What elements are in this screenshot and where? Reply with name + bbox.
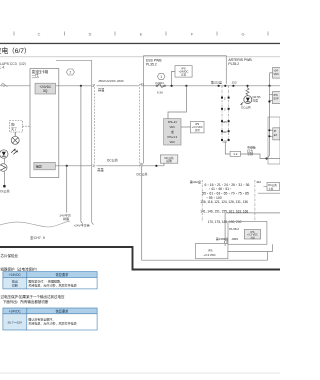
svg-text:DC公共: DC公共 [164,156,174,160]
block DC公共 接地 [160,155,177,163]
svg-text:正常: 正常 [195,128,201,132]
stub to block R1 [270,72,273,74]
monitor block IPS +3.3 VDC [244,230,260,240]
svg-text:J504=24VDC 2000: J504=24VDC 2000 [98,79,124,83]
harness box top edge [56,59,92,61]
wire to common [3,158,5,164]
svg-text:下面列出：所有输出都被切断: 下面列出：所有输出都被切断 [3,299,49,304]
svg-text:105: 105 [222,120,227,124]
pin dot [224,85,226,87]
svg-text:高温: 高温 [98,87,105,92]
svg-text:6.3A: 6.3A [157,91,163,95]
junction node [171,85,173,87]
lamp DS1 [11,132,19,144]
monitor block IPS +3.3 VDC [191,121,205,132]
ESS PWB board outline [144,56,227,164]
svg-text:IP: IP [274,130,277,133]
wire break symbol [1,83,7,86]
svg-text:或: 或 [171,130,174,134]
svg-text:C: C [38,32,41,36]
node square [3,185,5,187]
junction node [155,165,157,167]
stub up to DC block [163,163,165,166]
converter box U1 直流压卡箱 [30,69,59,178]
svg-text:・41・46・51・: ・41・46・51・ [208,187,233,191]
ruler ticks [14,32,268,36]
junction node [218,85,220,87]
wire +24V across ESS [141,85,280,87]
svg-text:170, 175, 185, 190, 200: 170, 175, 185, 190, 200 [208,220,242,224]
svg-text:第J22盒: 第J22盒 [211,79,222,84]
svg-text:DC公共: DC公共 [107,158,119,163]
svg-text:VDC: VDC [274,73,279,76]
junction node [268,100,270,102]
output block IPS +3.3VDC [196,244,228,259]
zone tag hexagon 2 [66,69,74,75]
pin dot [232,85,234,87]
dashed link to converter [23,125,31,127]
svg-text:至CH7. 9: 至CH7. 9 [30,236,45,240]
stub to lower block b [269,135,272,137]
svg-text:土权: 土权 [250,235,256,239]
svg-text:DC公共: DC公共 [137,172,149,177]
svg-text:J22: J22 [256,180,261,184]
svg-text:亮度: 亮度 [252,98,258,102]
svg-text:EXP: EXP [274,98,279,101]
svg-text:IPS+3.3: IPS+3.3 [167,135,177,139]
stub to monitor block [172,71,175,85]
pin 102 [221,130,230,134]
svg-text:1: 1 [92,164,94,168]
harness box right edge [92,60,94,224]
svg-text:IPS+24: IPS+24 [168,120,177,124]
bus to monitor R2 [269,86,271,101]
photodiode circle [0,150,8,158]
svg-text:PL35.2: PL35.2 [228,62,239,66]
footer rule [0,372,280,374]
wire return riser2 [267,252,269,261]
svg-text:J309: J309 [231,237,238,241]
zone tag hexagon 1 [157,73,165,79]
table 2 [3,308,97,330]
wire return riser [272,244,274,251]
fuse F2004 [156,81,166,95]
svg-text:变电（6/7）: 变电（6/7） [0,46,31,55]
svg-text:103: 103 [222,139,227,143]
connector J309 symbol [224,241,227,243]
outer block R3 [268,117,280,164]
svg-text:102: 102 [222,130,227,134]
right bus vertical [269,73,271,86]
svg-text:短路保护（过电流保护）: 短路保护（过电流保护） [1,266,40,271]
wire input to converter [0,85,30,87]
svg-text:第J22盒: 第J22盒 [190,179,201,184]
wire 24V lamp drop [66,166,68,213]
svg-text:+24VDC: +24VDC [9,309,22,313]
svg-text:灭了: 灭了 [11,126,17,131]
block 1.2 [230,151,240,156]
wire common to right edge [226,212,280,214]
wire DC return inside ESS [139,165,164,167]
svg-text:26.7～32V: 26.7～32V [7,320,23,324]
wire DC return to ESS [97,165,140,167]
svg-text:芯片保险丝: 芯片保险丝 [1,253,19,258]
pin 2 [221,96,230,100]
output block +24VDC 5Q [35,83,56,94]
wire down to J309 [224,213,226,241]
block +24VDC indicator [273,68,282,79]
svg-text:XX公共: XX公共 [0,188,10,193]
converter label underline [32,77,39,79]
svg-text:5Q: 5Q [43,89,48,93]
board PL38.2 box [228,221,267,244]
wire DC return loop down [142,166,268,260]
LED arrows [241,102,243,105]
transistor circle [0,164,7,172]
junction node [266,157,268,159]
svg-text:接地: 接地 [166,159,172,163]
wire down to supervisor [168,86,186,119]
wire to common node [3,171,5,186]
resistor R1 [246,85,249,96]
svg-text:DC公共: DC公共 [241,106,251,110]
block DC公共 right [264,183,280,191]
wire 1.2 to right [241,154,281,159]
supervisor block IPS+24 or IPS+3.3 [164,119,181,145]
connector J1 dashed line [138,84,140,168]
svg-text:关闭电源，允许15秒，然后打开电源: 关闭电源，允许15秒，然后打开电源 [28,321,76,326]
block IPS EXP [273,92,282,104]
junction node [268,85,270,87]
svg-text:E: E [140,32,143,36]
junction node [80,85,82,87]
connector J22 jack column [228,86,230,142]
junction node [66,165,68,167]
svg-text:8(: 8( [140,162,143,166]
svg-text:J22: J22 [232,80,237,84]
pin 3 [221,108,230,112]
title bar bottom rule [0,56,280,58]
svg-text:PL35.2: PL35.2 [146,62,157,66]
svg-text:恢复要求: 恢复要求 [56,308,70,313]
pin 103 [221,139,230,143]
svg-text:树脂: 树脂 [63,216,69,221]
svg-text:3: 3 [92,84,94,88]
svg-text:+24VDC: +24VDC [9,273,22,277]
svg-text:IPS: IPS [208,248,213,252]
svg-text:过电压保护:如果某于一个输出达到过电压: 过电压保护:如果某于一个输出达到过电压 [1,294,65,299]
junction node [268,135,270,137]
bus drop to common node [267,101,270,159]
svg-text:恢复要求: 恢复要求 [56,272,70,277]
svg-text:G: G [242,32,245,36]
svg-text:一代: 一代 [32,73,39,78]
harness curve [0,221,70,227]
table 1 [3,272,97,289]
wire J309 to output block [224,243,226,246]
junction node [268,129,270,131]
wire DC return from ground block [55,165,91,167]
LED DS2 [244,96,252,106]
svg-text:高温: 高温 [97,167,104,172]
annunciator dashed box 亮/灭了 [10,121,23,133]
svg-text:正常: 正常 [181,72,187,76]
wire from connector to 1.2 block [225,142,230,154]
stub to block R2a [270,94,273,96]
svg-text:辅固: 辅固 [36,164,42,169]
stub to lower block a [269,129,272,131]
svg-text:D: D [89,32,92,36]
svg-text:2: 2 [70,70,72,74]
svg-text:VDC: VDC [169,140,175,144]
junction node [185,85,187,87]
svg-text:关闭电源，允许15秒，然后打开电源: 关闭电源，允许15秒，然后打开电源 [28,283,76,288]
svg-text:106, 116, 121, 124, 126, 131,: 106, 116, 121, 124, 126, 131, 136 [200,200,248,204]
link supervisor to monitor [181,126,191,128]
svg-text:土权: 土权 [268,186,274,190]
wire drop from junction [81,86,83,224]
svg-text:+24V平方英: +24V平方英 [74,223,90,228]
svg-text:PL38.2: PL38.2 [229,227,239,231]
thick separator polyline [0,247,280,270]
connector J22 plug column [221,86,223,142]
wire +24V from converter to pin 3 [56,85,92,87]
connector J504 dashed line [94,84,96,168]
wire +24V to ESS [97,85,140,87]
stub to block R2b [270,100,273,102]
svg-text:IPS: IPS [274,94,278,97]
title bar thick rule [0,43,280,44]
ground block 辅固 [34,162,55,170]
pin 105 [221,120,230,124]
svg-text:1.2: 1.2 [233,152,238,156]
svg-text:1: 1 [160,75,162,79]
svg-text:切断: 切断 [12,283,18,288]
ruler letters [38,32,245,36]
wire output to right [228,251,273,253]
svg-text:第J309盒: 第J309盒 [216,236,229,241]
wire 85 stub to right edge [258,192,280,194]
light arrows [11,149,17,155]
svg-text:EX: EX [274,134,278,137]
connector J22 pin list plug column [201,180,203,222]
monitor block IPS +24VDC [175,66,192,77]
svg-text:+3.3 VDC: +3.3 VDC [204,253,216,257]
block IPS EXP lower [273,128,280,140]
svg-text:F2004: F2004 [156,81,165,85]
svg-text:VDC: VDC [169,125,175,129]
connector J22 pin list jack column [254,180,256,222]
svg-text:L 4.: L 4. [0,66,5,70]
